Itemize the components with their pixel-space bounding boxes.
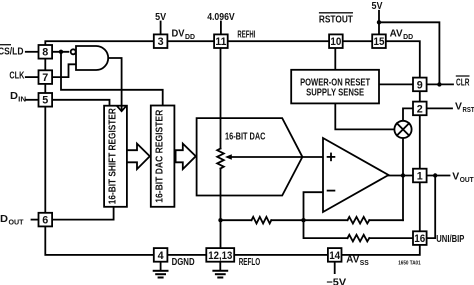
- AND gate U1: [76, 46, 108, 70]
- svg-text:11: 11: [215, 36, 226, 48]
- pin 12,13 box: [206, 248, 234, 262]
- svg-text:OUT: OUT: [9, 217, 24, 226]
- shift register clock arrowhead: [121, 106, 123, 111]
- wire VOUT to pin16 loop: [427, 176, 435, 239]
- svg-text:9: 9: [417, 79, 423, 91]
- wire load branch from node to DAC register top: [61, 52, 163, 106]
- pin 15 box: [372, 34, 386, 48]
- wire op-amp minus: [304, 192, 324, 220]
- junction dot REFLO node: [218, 218, 222, 222]
- svg-text:D: D: [0, 213, 8, 225]
- svg-text:3: 3: [158, 36, 164, 48]
- junction dot output node: [401, 173, 405, 177]
- wire pin10 to POR box: [334, 48, 336, 70]
- pin 6 box: [39, 213, 53, 227]
- resistor unibip: [348, 235, 370, 242]
- resistor feedback: [348, 217, 370, 224]
- junction dot minus node: [301, 218, 305, 222]
- pin 11 box: [214, 34, 228, 48]
- svg-text:OUT: OUT: [460, 175, 474, 184]
- wire pin8 to gate bubble: [52, 51, 68, 53]
- svg-text:V: V: [455, 100, 462, 112]
- svg-text:AV: AV: [390, 27, 403, 39]
- junction dot VOUT node: [433, 173, 437, 177]
- svg-text:6: 6: [42, 215, 48, 227]
- wire switch to pin2: [403, 108, 413, 120]
- 16-bit shift register box: [104, 106, 127, 207]
- pin 2 box: [413, 102, 427, 116]
- svg-text:5: 5: [42, 95, 48, 107]
- wire 5V to pin15: [378, 11, 380, 35]
- wire POR to pin9: [379, 83, 413, 85]
- svg-text:14: 14: [329, 250, 341, 262]
- wire DIN lead: [26, 99, 38, 101]
- svg-text:10: 10: [330, 36, 341, 48]
- svg-text:RST: RST: [463, 105, 474, 114]
- pin 1 box: [413, 169, 427, 183]
- pin 14 box: [328, 248, 342, 262]
- overline CS: [0, 44, 11, 46]
- svg-text:15: 15: [374, 36, 385, 48]
- junction dot 5V branch: [377, 20, 381, 24]
- block arrow dac-register-to-dac: [176, 144, 196, 170]
- junction dot CLR node: [437, 82, 441, 86]
- svg-text:5V: 5V: [372, 0, 383, 12]
- resistor in DAC (vertical): [217, 149, 224, 169]
- overline RSTOUT: [319, 12, 353, 14]
- wire unibip row: [304, 220, 348, 238]
- svg-text:UNI/BIP: UNI/BIP: [436, 233, 464, 245]
- wire op-amp output to VOUT: [389, 175, 450, 177]
- pin 8 box: [39, 45, 53, 59]
- svg-text:SS: SS: [360, 258, 369, 267]
- svg-text:7: 7: [42, 72, 48, 84]
- svg-text:RSTOUT: RSTOUT: [319, 14, 353, 26]
- wire CLK lead: [26, 76, 39, 78]
- svg-text:4: 4: [158, 250, 165, 262]
- op-amp minus sign: [328, 190, 335, 192]
- svg-text:CLR: CLR: [456, 77, 470, 89]
- wire feedback row: [304, 219, 348, 221]
- svg-text:12,13: 12,13: [208, 250, 232, 262]
- svg-text:DD: DD: [403, 32, 414, 41]
- wire gate output to shift register clock: [108, 58, 121, 110]
- 16-bit DAC pentagon: [197, 118, 303, 195]
- svg-text:REFHI: REFHI: [237, 28, 255, 40]
- svg-text:16: 16: [414, 233, 425, 245]
- wire 5V branch to CLR: [379, 22, 439, 84]
- svg-text:CS/LD: CS/LD: [0, 45, 24, 57]
- pin 7 box: [39, 70, 53, 84]
- wire CLK to gate lower input: [52, 64, 76, 77]
- svg-text:REFLO: REFLO: [239, 256, 261, 268]
- op-amp plus sign: [328, 156, 335, 158]
- wire AVSS stub: [334, 262, 336, 274]
- svg-text:−5V: −5V: [326, 276, 346, 285]
- wire CLR lead: [427, 83, 453, 85]
- svg-text:16-BIT DAC REGISTER: 16-BIT DAC REGISTER: [155, 110, 166, 203]
- svg-text:8: 8: [42, 47, 48, 59]
- overline CLR: [456, 75, 470, 77]
- svg-text:16-BIT SHIFT REGISTER: 16-BIT SHIFT REGISTER: [108, 108, 119, 204]
- svg-text:SUPPLY SENSE: SUPPLY SENSE: [306, 88, 364, 99]
- pin 10 box: [329, 34, 343, 48]
- wire DOUT lead: [32, 219, 39, 221]
- svg-text:CLK: CLK: [9, 69, 24, 81]
- wire DAC wiper to op-amp +: [229, 156, 324, 158]
- svg-text:IN: IN: [18, 95, 26, 104]
- svg-text:4.096V: 4.096V: [207, 11, 235, 23]
- svg-text:DGND: DGND: [172, 256, 195, 268]
- reset switch circle: [394, 121, 411, 138]
- junction dot pin8 node: [59, 50, 63, 54]
- svg-text:V: V: [452, 171, 459, 183]
- chip outline: [45, 41, 420, 255]
- 16-bit DAC register box: [151, 106, 175, 207]
- wiper arrowhead: [225, 154, 232, 160]
- wire 4.096V to pin11: [220, 22, 222, 35]
- block arrow shift-to-dac register: [127, 144, 150, 170]
- wire DOUT from shift register bottom: [52, 207, 114, 220]
- ground under pin4: [160, 262, 162, 271]
- svg-text:5V: 5V: [155, 11, 166, 23]
- svg-text:AV: AV: [346, 253, 359, 265]
- gate input bubble: [71, 49, 76, 54]
- wire 5V to pin3: [160, 22, 162, 35]
- svg-text:D: D: [10, 90, 18, 102]
- wire switch to output node: [402, 138, 404, 220]
- svg-text:2: 2: [417, 103, 423, 115]
- svg-text:1650 TA01: 1650 TA01: [398, 261, 421, 267]
- wire CS/LD lead: [26, 51, 39, 53]
- svg-text:16-BIT DAC: 16-BIT DAC: [225, 130, 266, 142]
- ground under pins 12,13: [219, 262, 221, 271]
- resistor REFLO-node (horizontal): [252, 217, 272, 224]
- wire node row REFLO to minus node: [221, 219, 252, 221]
- svg-text:DV: DV: [172, 27, 185, 39]
- wire DIN to shift register top: [52, 100, 110, 106]
- pin 5 box: [39, 93, 53, 107]
- wire REFHI vertical: [220, 48, 222, 149]
- op-amp A1: [323, 138, 389, 212]
- pin 3 box: [154, 34, 168, 48]
- pin 4 box: [154, 248, 168, 262]
- wire POR to switch circle: [335, 103, 394, 129]
- wire VRST lead: [427, 107, 452, 109]
- pin 9 box: [413, 78, 427, 92]
- POWER-ON RESET SUPPLY SENSE box: [291, 70, 379, 104]
- pin 16 box: [413, 231, 427, 245]
- svg-text:1: 1: [417, 170, 423, 182]
- svg-text:DD: DD: [185, 32, 196, 41]
